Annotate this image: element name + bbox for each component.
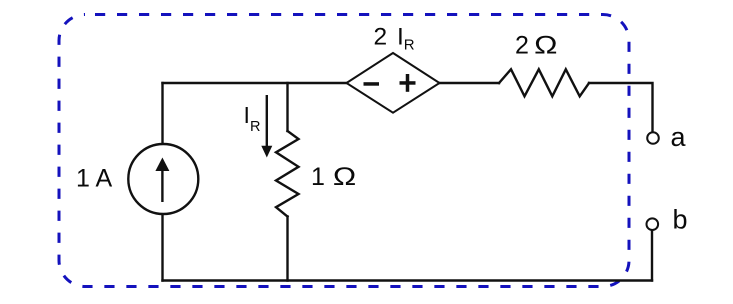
svg-text:2: 2 <box>374 24 388 51</box>
svg-text:I: I <box>244 102 250 128</box>
svg-text:2: 2 <box>515 32 529 60</box>
svg-text:R: R <box>404 37 415 54</box>
svg-text:1: 1 <box>311 163 325 191</box>
svg-text:Ω: Ω <box>333 162 356 190</box>
svg-text:b: b <box>673 205 688 235</box>
svg-text:a: a <box>671 122 687 152</box>
svg-text:Ω: Ω <box>534 31 557 59</box>
svg-text:1 A: 1 A <box>76 165 112 193</box>
svg-text:I: I <box>397 23 404 50</box>
svg-text:R: R <box>250 119 260 135</box>
